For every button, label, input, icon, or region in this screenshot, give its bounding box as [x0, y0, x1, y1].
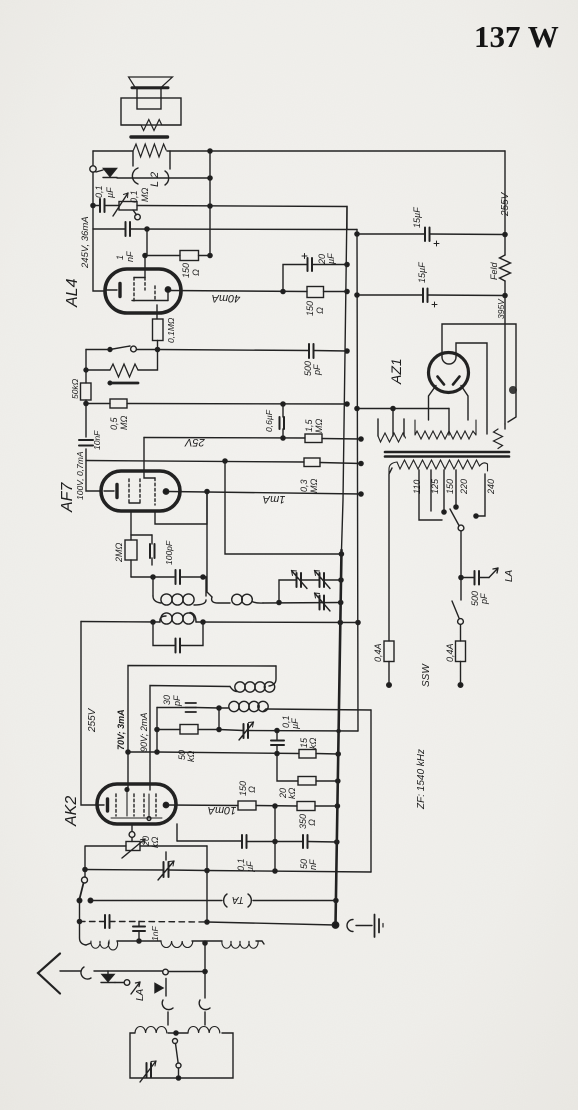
- potentiometer 20k cathode: [122, 838, 145, 859]
- resistor 350R: [297, 802, 315, 811]
- svg-text:MΩ: MΩ: [140, 188, 150, 202]
- switch wave band: [77, 877, 93, 903]
- resistor 150R ak2: [238, 801, 256, 810]
- svg-text:1: 1: [115, 255, 125, 260]
- resistor 0.3M: [304, 458, 320, 467]
- svg-text:0,6µF: 0,6µF: [264, 409, 274, 432]
- svg-text:125: 125: [430, 478, 440, 494]
- scan blob artifact: [509, 386, 517, 394]
- node AL4 top pin: [143, 253, 147, 257]
- node 0.6uF-gridline: [281, 436, 285, 440]
- node IFB-279: [277, 600, 281, 604]
- wire AL4 grid riser: [156, 305, 158, 319]
- node screen node 752: [126, 750, 130, 754]
- svg-text:LA: LA: [504, 569, 515, 582]
- wire AL4 cathode to left rail: [93, 229, 105, 291]
- wire AF7 grid line: [144, 438, 361, 440]
- node 150-350: [273, 804, 277, 808]
- wire bar to circle: [115, 982, 124, 984]
- svg-text:L 2: L 2: [149, 172, 161, 187]
- capacitor IFA tuning bottom: [153, 622, 203, 653]
- ground symbol: [347, 915, 383, 938]
- node 275-872: [273, 869, 277, 873]
- svg-text:Ω: Ω: [307, 819, 317, 826]
- jack L2 right contact: [165, 151, 170, 185]
- node 0.3M-railB: [359, 461, 363, 465]
- wire LW column: [80, 901, 87, 946]
- node box left 870: [83, 867, 87, 871]
- svg-text:100V, 0,7mA: 100V, 0,7mA: [75, 451, 85, 500]
- wire 1nF line: [93, 228, 357, 231]
- capacitor 20uF electrolytic: [308, 258, 313, 271]
- wire tap 240: [476, 474, 485, 516]
- jack L2 left contact: [132, 151, 138, 184]
- switch tone: [86, 346, 158, 352]
- wire 177 riser: [176, 824, 178, 841]
- node 275-842: [273, 839, 277, 843]
- svg-text:1mA: 1mA: [263, 493, 286, 505]
- inductor LW coil 2: [188, 1027, 220, 1034]
- capacitor IFA tuning top: [176, 570, 181, 584]
- node heater ct: [391, 406, 395, 410]
- svg-text:150: 150: [181, 263, 191, 278]
- node tank right: [201, 575, 205, 579]
- svg-text:15µF: 15µF: [417, 262, 427, 283]
- svg-text:µF: µF: [326, 253, 336, 264]
- node IFA2 right: [201, 620, 205, 624]
- node padder left: [217, 727, 221, 731]
- wire 30pF riser: [156, 708, 158, 753]
- node 50k bottom: [84, 401, 88, 405]
- node anode-railA: [345, 289, 349, 293]
- fuse 0.4A left: [384, 641, 394, 662]
- wire loop right vertical: [370, 710, 372, 872]
- plus sign 15uF lower: [432, 302, 437, 307]
- inductor oscillator anode coil: [230, 666, 276, 692]
- svg-text:Ω: Ω: [315, 307, 325, 314]
- wire AF7 suppressor loop: [155, 492, 207, 525]
- node AGC riser: [223, 459, 227, 463]
- jack TA left: [224, 894, 227, 907]
- tube AF7: [101, 471, 180, 511]
- wire 0.5M to rail A: [127, 403, 347, 406]
- svg-text:kΩ: kΩ: [186, 751, 196, 763]
- svg-text:110: 110: [412, 480, 422, 494]
- resistor 15k: [299, 750, 316, 759]
- wire fuse2 to plug: [460, 662, 462, 683]
- svg-text:kΩ: kΩ: [308, 738, 318, 750]
- svg-text:150: 150: [305, 301, 315, 316]
- wire left rail down: [92, 172, 94, 229]
- node 30pf riser bottom: [155, 750, 159, 754]
- inductor ant coil 3: [222, 941, 258, 948]
- svg-text:0,4A: 0,4A: [445, 643, 455, 662]
- wire AL4 top pin: [144, 256, 146, 278]
- resistor 50k osc: [180, 725, 198, 735]
- svg-text:240: 240: [486, 479, 496, 495]
- inductor IFA primary: [160, 616, 166, 622]
- wire selector down: [460, 531, 462, 577]
- wire 275 riser: [274, 806, 276, 871]
- svg-text:10nF: 10nF: [92, 430, 102, 450]
- inductor IFB: [212, 594, 263, 605]
- antenna symbol: [38, 954, 60, 994]
- svg-text:nF: nF: [308, 859, 318, 870]
- node 0.5M-railA: [345, 402, 349, 406]
- wire 147 riser to 150R: [147, 229, 180, 256]
- node tap220: [454, 505, 458, 509]
- wire antenna lead: [60, 970, 81, 972]
- wire B+ top rail: [93, 150, 133, 152]
- wire fuse1 to plug: [388, 662, 390, 683]
- wire rail 255V top: [504, 151, 506, 255]
- svg-text:137 W: 137 W: [474, 19, 559, 54]
- wire AF7 grid1 riser down: [130, 512, 132, 535]
- wire IFA top tank: [131, 576, 206, 578]
- node rail210 top: [208, 149, 212, 153]
- wire screen line 15k: [128, 752, 338, 754]
- svg-text:30: 30: [162, 695, 172, 705]
- transformer HV winding: [415, 420, 476, 439]
- wire AF7 grid riser: [143, 438, 145, 473]
- node padder railA cross: [337, 729, 340, 732]
- jack antenna hook: [81, 967, 91, 979]
- svg-text:395V: 395V: [496, 298, 506, 319]
- terminal circle LA1: [124, 980, 130, 986]
- svg-text:10mA: 10mA: [208, 804, 237, 816]
- wire AL4 anode: [170, 291, 307, 292]
- resistor 1.5M: [305, 434, 322, 443]
- wire tap 220: [455, 470, 457, 507]
- node switch-junction: [155, 347, 159, 351]
- wire 15uF lower line: [357, 294, 505, 297]
- wire AK2 anode feed rail: [81, 622, 97, 806]
- resistor 20k: [298, 777, 316, 786]
- node 500pF-LA: [459, 575, 463, 579]
- trimmer capacitor T3: [315, 593, 331, 611]
- switch mains: [452, 601, 463, 624]
- svg-text:0,1: 0,1: [94, 185, 104, 198]
- node box bottom: [176, 1076, 180, 1080]
- wire osc tap down: [204, 943, 206, 998]
- terminal mains left: [387, 683, 392, 688]
- wire IFB to rail A: [263, 602, 341, 605]
- wire AZ1 anode 2: [456, 343, 487, 434]
- node feed-railA: [338, 620, 342, 624]
- wire 20k branch: [277, 754, 338, 782]
- node 0.1uF top: [275, 728, 279, 732]
- node box-922: [205, 920, 209, 924]
- plus sign 15uF upper: [434, 241, 439, 246]
- node railB-heater: [355, 406, 359, 410]
- node railB-234: [355, 232, 359, 236]
- wire IF feed line: [81, 622, 358, 623]
- wire jack to grid rail: [117, 177, 210, 179]
- svg-text:Feld: Feld: [489, 261, 499, 280]
- node tap150: [442, 510, 446, 514]
- capacitor AVC: [105, 915, 110, 928]
- svg-text:nF: nF: [125, 251, 135, 262]
- wire 150R to rail210: [199, 255, 211, 257]
- node AGC-railA: [339, 552, 343, 556]
- node 50k left: [155, 727, 159, 731]
- plug antenna triangle: [101, 971, 115, 983]
- svg-text:pF: pF: [479, 593, 489, 605]
- capacitor 0.1uF ak2: [242, 835, 247, 848]
- svg-text:15µF: 15µF: [412, 207, 422, 228]
- resistor 0.5M: [110, 399, 127, 408]
- wire AGC line 0.3M: [86, 461, 361, 464]
- node IFB-railA: [339, 600, 343, 604]
- wire rail A: [342, 207, 348, 551]
- svg-text:1,5: 1,5: [304, 418, 314, 432]
- node IFA2 left: [151, 620, 155, 624]
- capacitor 15uF lower: [423, 289, 428, 303]
- node avc-column: [77, 919, 81, 923]
- node 15k-railA: [336, 752, 340, 756]
- wire 20uF riser: [283, 265, 307, 292]
- capacitor 50nF: [303, 835, 308, 848]
- node tank left: [151, 575, 155, 579]
- wire heater line: [357, 408, 449, 410]
- capacitor 30pF: [186, 703, 197, 712]
- terminal cathode circle: [129, 832, 135, 838]
- wire primary left leg: [389, 468, 392, 641]
- node anode-20uF riser: [281, 289, 285, 293]
- node rail210 end: [208, 253, 212, 257]
- wire 15uF upper line: [357, 233, 505, 236]
- capacitor 100pF: [150, 535, 155, 565]
- trimmer capacitor padder: [239, 722, 254, 740]
- svg-text:ZF: 1540 kHz: ZF: 1540 kHz: [416, 749, 427, 810]
- svg-text:TA: TA: [232, 894, 244, 905]
- svg-text:AK2: AK2: [63, 796, 80, 827]
- wire osc grid riser: [218, 708, 220, 730]
- plug LA triangle: [155, 979, 166, 997]
- node railB-295: [355, 293, 359, 297]
- resistor Feld field coil: [500, 255, 511, 281]
- node 1.5M-railB: [359, 437, 363, 441]
- wire TA to rail A: [253, 900, 336, 902]
- wire volume left rail: [85, 350, 87, 384]
- wire osc grid bottom line: [207, 871, 371, 873]
- node 350-railA: [335, 804, 339, 808]
- transformer rect winding: [494, 429, 503, 449]
- svg-text:0,3: 0,3: [299, 479, 309, 492]
- node 93-205: [91, 203, 95, 207]
- node T right: [205, 868, 209, 872]
- wire antenna coil row: [86, 941, 264, 945]
- capacitor 10nF: [79, 440, 93, 446]
- wire selector to mains switch: [460, 578, 462, 601]
- wire trimmer T line: [85, 870, 207, 871]
- switch voltage selector: [450, 509, 464, 531]
- wire AZ1 filament left: [429, 386, 437, 421]
- wire osc coil to loop corner: [266, 709, 371, 710]
- output transformer primary winding: [134, 144, 167, 157]
- wire cathode box: [85, 846, 207, 877]
- svg-text:70V; 3mA: 70V; 3mA: [116, 709, 126, 750]
- wire tap 125: [430, 470, 432, 511]
- node tap240: [474, 514, 478, 518]
- node 15uF2-rail255: [503, 293, 507, 297]
- wire trimmer row: [279, 580, 341, 603]
- resistor 0.1M grid leak: [153, 319, 164, 341]
- wire 150R to rail A: [324, 291, 348, 293]
- svg-text:1nF: 1nF: [150, 926, 160, 941]
- node box top: [174, 1031, 178, 1035]
- svg-text:pF: pF: [312, 364, 322, 376]
- trimmer capacitor T2: [315, 571, 331, 589]
- svg-text:AL4: AL4: [64, 278, 81, 308]
- plus sign 20uF: [302, 254, 307, 259]
- node jack-rail: [208, 176, 212, 180]
- tube AZ1: [429, 353, 469, 393]
- wire grid network top: [131, 534, 152, 536]
- resistor 150R screen: [180, 251, 199, 261]
- svg-text:255V: 255V: [500, 191, 511, 217]
- trimmer capacitor T wave: [158, 852, 174, 880]
- inductor LW coil 1: [135, 1027, 167, 1034]
- wire cap to pot: [93, 205, 119, 207]
- svg-text:255V: 255V: [87, 707, 98, 733]
- wire AZ1 filament right: [461, 386, 468, 421]
- transformer primary winding: [389, 460, 488, 474]
- node osc tap: [203, 941, 207, 945]
- node AF7anode-railB: [359, 492, 363, 496]
- wire AVC dashed: [80, 921, 208, 924]
- trimmer capacitor box: [140, 1061, 156, 1082]
- trimmer capacitor T1: [292, 571, 308, 589]
- wire box right vertical: [206, 846, 208, 922]
- terminal circle LA2: [163, 969, 169, 975]
- svg-text:kΩ: kΩ: [287, 788, 297, 800]
- svg-text:SSW: SSW: [421, 663, 432, 687]
- node ground junction: [332, 922, 338, 928]
- svg-text:pF: pF: [172, 695, 182, 707]
- node osc grid: [217, 706, 221, 710]
- wire tap 150: [443, 470, 445, 512]
- svg-text:0,4A: 0,4A: [373, 643, 383, 662]
- jack TA right: [248, 894, 251, 907]
- node 15uF-rail255: [503, 232, 507, 236]
- tube AL4: [105, 269, 181, 313]
- capacitor 0.1uF: [100, 199, 105, 212]
- svg-text:150: 150: [445, 479, 455, 494]
- svg-text:µF: µF: [105, 187, 115, 198]
- coil box frame: [130, 1033, 233, 1078]
- wire 0.1uF-50nF row: [177, 841, 337, 842]
- svg-text:AZ1: AZ1: [388, 358, 404, 385]
- plug contact triangle: [96, 169, 117, 178]
- wire pot to rail A: [137, 206, 347, 230]
- node trimmerrow-railA: [339, 578, 343, 582]
- wire grid leak to switch node: [157, 341, 159, 350]
- svg-text:0,1MΩ: 0,1MΩ: [166, 317, 176, 343]
- svg-text:Ω: Ω: [247, 786, 257, 793]
- wire 20uF to rail A: [312, 264, 347, 266]
- wire 10nF column: [86, 404, 101, 492]
- inductor IFA secondary: [153, 577, 206, 605]
- wire TA line: [91, 900, 223, 902]
- inductor oscillator grid coil: [219, 701, 268, 711]
- node osc jack: [203, 969, 207, 973]
- potentiometer volume body: [84, 350, 158, 385]
- transformer heater winding: [378, 409, 406, 443]
- capacitor 0.1uF osc: [271, 731, 284, 755]
- wire AK2 inner grid loop: [150, 686, 230, 791]
- switch in box: [173, 1039, 182, 1079]
- terminal mains right: [458, 683, 463, 688]
- svg-text:100pF: 100pF: [164, 540, 174, 565]
- speaker LS: [121, 77, 181, 131]
- node pot-rail210: [208, 204, 212, 208]
- wire 50k line: [157, 729, 219, 731]
- node 1nF-coilrow: [137, 939, 141, 943]
- wire rail B: [357, 230, 358, 732]
- wire 30pF line: [157, 707, 219, 710]
- svg-text:kΩ: kΩ: [150, 837, 160, 849]
- wire AK2 cathode riser: [131, 824, 133, 831]
- arrow LA out: [489, 568, 498, 578]
- terminal circle: [90, 166, 96, 172]
- resistor 50k: [81, 383, 92, 400]
- svg-text:25V: 25V: [184, 436, 206, 448]
- wire heater corner: [448, 409, 450, 436]
- node 0.1uF bottom: [275, 751, 279, 755]
- svg-text:MΩ: MΩ: [309, 479, 319, 493]
- svg-text:220: 220: [459, 479, 469, 495]
- wire to plug: [94, 970, 162, 972]
- capacitor 15uF upper: [425, 228, 430, 242]
- svg-text:Ω: Ω: [191, 269, 201, 276]
- wire osc jack line: [169, 971, 207, 973]
- capacitor 0.6uF: [280, 404, 285, 438]
- wire AK2 anode row: [168, 805, 337, 806]
- svg-text:LA: LA: [135, 988, 146, 1001]
- output transformer core: [131, 135, 168, 138]
- resistor 2M: [125, 535, 137, 577]
- svg-text:50kΩ: 50kΩ: [70, 378, 80, 399]
- potentiometer 0.1M: [113, 193, 140, 220]
- wire rail 210: [209, 151, 211, 256]
- svg-text:MΩ: MΩ: [314, 419, 324, 433]
- capacitor 500pF: [309, 344, 314, 358]
- svg-text:90V; 2mA: 90V; 2mA: [139, 713, 149, 752]
- node feed-railB: [356, 620, 360, 624]
- svg-text:0,1: 0,1: [129, 190, 139, 203]
- transformer core: [385, 452, 509, 457]
- node 20uF-railA: [345, 262, 349, 266]
- wire to fuse 2: [460, 625, 462, 642]
- wire AZ1 anode 1: [442, 324, 516, 422]
- svg-text:MΩ: MΩ: [119, 416, 129, 430]
- wire avc to ground bus: [207, 922, 335, 925]
- wire rail 255V mid: [504, 281, 506, 424]
- inductor ant coil 1: [91, 941, 118, 950]
- node 500pF-railA: [345, 349, 349, 353]
- node 147-229: [145, 227, 149, 231]
- svg-text:AF7: AF7: [59, 482, 76, 513]
- svg-text:µF: µF: [245, 861, 255, 872]
- wire AK2 screen outer loop: [128, 666, 276, 790]
- svg-text:2MΩ: 2MΩ: [114, 542, 124, 563]
- wire AF7 anode: [169, 492, 361, 495]
- wire AGC riser down: [225, 461, 341, 554]
- node anode-IFB riser: [205, 489, 209, 493]
- fuse 0.4A right: [456, 641, 466, 662]
- svg-text:0,5: 0,5: [109, 416, 119, 430]
